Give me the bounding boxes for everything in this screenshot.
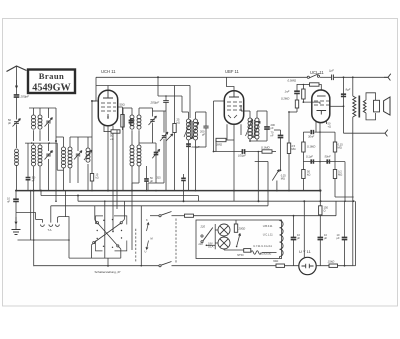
lamp shunt switch	[237, 233, 241, 246]
det cap 70nF	[278, 135, 284, 137]
antenna coil	[15, 149, 19, 153]
band arrows K	[147, 223, 150, 232]
svg-text:8µF: 8µF	[346, 88, 351, 92]
voltage selector switch	[201, 235, 203, 237]
UCL11 grids	[314, 101, 329, 105]
ext speaker jack bottom	[385, 130, 388, 137]
agc cap 100uF	[242, 149, 244, 154]
IFT2 arrows	[246, 119, 253, 136]
UBF11 diode plates	[228, 115, 237, 118]
avc line 2 dots	[183, 200, 185, 202]
resistor 015M	[333, 142, 336, 152]
svg-text:50Ω: 50Ω	[120, 103, 125, 107]
svg-text:pF: pF	[8, 121, 11, 125]
heater wavy resistor	[251, 251, 261, 255]
IFT1 cores	[190, 121, 192, 139]
svg-text:kΩ: kΩ	[96, 177, 99, 180]
svg-text:0,1A: 0,1A	[208, 245, 214, 249]
diode load resistor 2M	[216, 138, 226, 141]
UCL11 anode wire	[329, 105, 343, 107]
svg-text:50nF: 50nF	[325, 155, 331, 159]
capacitor 10nF	[13, 199, 19, 201]
nfb drop wire	[334, 179, 336, 198]
filter cap C1 10uF	[291, 237, 297, 239]
IFT1 wires	[188, 112, 190, 119]
svg-text:T.A: T.A	[48, 228, 52, 232]
band switch arms	[94, 223, 121, 246]
svg-text:0,1MΩ: 0,1MΩ	[261, 146, 270, 150]
UCH11 grids	[101, 103, 116, 111]
band contact br	[117, 245, 119, 247]
pot wiper arrow	[166, 134, 173, 141]
svg-text:110: 110	[198, 242, 203, 246]
IFT1 cap 200pF	[203, 126, 208, 128]
svg-text:220: 220	[200, 224, 206, 228]
capacitor 200pF	[14, 95, 20, 97]
padder cap 50uF	[146, 166, 148, 179]
svg-text:2MΩ: 2MΩ	[215, 143, 223, 147]
filter cap C3 10uF	[342, 237, 348, 239]
junction UBF11 bus	[155, 190, 157, 192]
osc transformer T3	[62, 147, 66, 151]
svg-text:1µF: 1µF	[329, 69, 334, 73]
rf trimmer T1	[46, 121, 50, 123]
coupling cap 1nF	[294, 91, 300, 93]
svg-text:0,2MΩ: 0,2MΩ	[281, 97, 290, 101]
IFT1 arrows	[184, 120, 191, 137]
cathode cap dark	[129, 120, 134, 122]
resistor 01M b	[302, 142, 305, 152]
UCH11 pin wires	[103, 126, 105, 132]
switch link	[175, 219, 177, 264]
grid leak 05M	[302, 89, 305, 99]
svg-text:4549GW: 4549GW	[32, 82, 71, 93]
svg-text:nF: nF	[32, 180, 35, 183]
junction rf bus	[33, 190, 35, 192]
wire left column b	[55, 141, 57, 201]
tube UBF11	[224, 91, 243, 125]
svg-text:M: M	[151, 237, 153, 241]
label box Braun 4549GW	[28, 70, 75, 94]
junction on top rail	[157, 76, 159, 78]
resistor NT50	[244, 249, 251, 253]
band switch bottom bus	[69, 257, 121, 259]
svg-text:U: U	[145, 250, 147, 254]
svg-text:MΩ: MΩ	[338, 173, 342, 177]
rectifier feed	[303, 201, 305, 257]
svg-text:0,1MΩ: 0,1MΩ	[307, 145, 316, 149]
top rail wire	[96, 76, 307, 78]
svg-text:kΩ: kΩ	[307, 173, 310, 177]
rf transformer T2 wires	[33, 143, 35, 145]
svg-text:UCH 11: UCH 11	[101, 69, 116, 74]
svg-text:µF: µF	[337, 236, 340, 240]
earth arrow	[15, 212, 17, 221]
screen rail wire	[96, 85, 190, 87]
cath line	[303, 131, 310, 133]
UCH11 grid cap wire	[107, 86, 109, 91]
antenna down arrow	[15, 80, 17, 88]
ground symbol	[12, 230, 21, 235]
svg-text:MΩ: MΩ	[338, 146, 342, 150]
IFT2 cap 200pF	[264, 127, 270, 129]
UBF11 pin wires	[226, 124, 228, 140]
ta terminal 2	[49, 225, 53, 227]
band feed wires	[104, 201, 106, 258]
hum resistor 150	[319, 206, 322, 215]
anode bus wire	[16, 190, 321, 192]
capacitor 200uF a	[163, 101, 169, 103]
avc line 1	[41, 195, 198, 197]
svg-text:U Y 11: U Y 11	[299, 249, 312, 254]
tube UCL11	[312, 90, 330, 123]
anode bypass cap 8uF	[341, 94, 346, 96]
mid trimmer	[162, 136, 166, 138]
svg-text:Schalterstellung „R“: Schalterstellung „R“	[95, 270, 121, 274]
nfb cap 50nF	[327, 159, 329, 163]
right rail down	[352, 133, 354, 266]
svg-text:200pF: 200pF	[20, 95, 30, 99]
svg-text:NT50: NT50	[237, 253, 244, 257]
junction T5 bus	[131, 190, 133, 192]
antenna symbol	[7, 66, 27, 72]
rf transformer T2 bottom	[32, 145, 36, 149]
grid stopper 05M	[310, 83, 320, 86]
band switch dots	[103, 220, 104, 221]
ta wire right	[65, 191, 67, 217]
dashed link band	[135, 229, 137, 263]
svg-text:MΩ: MΩ	[292, 147, 296, 151]
ta terminal 3	[56, 225, 60, 227]
volume pot 025M	[272, 170, 279, 181]
UCH11 bias resistor	[111, 130, 120, 133]
UCH11 anode	[103, 90, 113, 98]
svg-text:+Ω: +Ω	[328, 125, 332, 129]
T4 trimmer	[150, 120, 154, 122]
gram switch	[307, 76, 309, 78]
UBF11 anode	[229, 91, 239, 97]
rf trimmer T2	[46, 154, 50, 156]
svg-text:Ω: Ω	[324, 209, 326, 213]
speaker coil box	[374, 100, 380, 112]
svg-text:315: 315	[157, 177, 162, 180]
filter cap C2 10uF	[318, 237, 324, 239]
heater rail	[34, 265, 159, 267]
svg-text:nF: nF	[271, 134, 274, 138]
UBF11 left wire	[213, 101, 215, 152]
cap 200uF b	[186, 144, 191, 146]
cap 50nF left	[27, 143, 29, 177]
svg-text:U.C.L.11: U.C.L.11	[263, 232, 274, 236]
junction UCH11 left	[91, 100, 93, 102]
T4 wires	[131, 108, 133, 115]
dial lamp 2	[218, 237, 230, 249]
svg-text:1nF: 1nF	[285, 90, 290, 94]
ext speaker jack top	[384, 74, 391, 81]
lamp link wire	[214, 224, 216, 249]
lamp resistor 200	[234, 224, 237, 232]
UBF11 grids	[227, 102, 242, 110]
svg-text:U.B.F.11: U.B.F.11	[263, 224, 273, 228]
junction bus right	[319, 189, 321, 191]
svg-text:µF: µF	[297, 236, 300, 240]
rf transformer T1 top	[32, 115, 36, 119]
speaker feed wire	[343, 106, 345, 133]
cath cap 30nF	[311, 130, 313, 134]
osc transformer wires	[63, 137, 65, 147]
svg-text:pF: pF	[202, 133, 205, 137]
rf transformer T1 wires	[33, 108, 35, 115]
UCH11 cathode	[107, 114, 109, 119]
avc line 3	[51, 205, 268, 207]
wire y240	[18, 239, 70, 241]
svg-text:U.Y.11 U.C.H.11: U.Y.11 U.C.H.11	[253, 244, 272, 248]
top rail jack dot	[352, 76, 354, 78]
UBF11 top wire	[227, 77, 235, 90]
IFT2 wires	[249, 111, 251, 118]
band switch wafer outline	[96, 216, 127, 251]
secondary loop wires	[366, 93, 376, 120]
band contact tl	[96, 222, 98, 224]
speaker cone	[384, 97, 390, 115]
svg-text:15kΩ: 15kΩ	[328, 260, 336, 264]
resistor 15k	[329, 264, 338, 267]
power line left jog	[140, 206, 142, 266]
svg-text:60Ω: 60Ω	[273, 259, 278, 263]
svg-text:100µF: 100µF	[238, 154, 246, 158]
trimmer cap antenna	[14, 122, 19, 124]
series cap 1uF	[332, 75, 334, 81]
resistor 02M a	[295, 100, 298, 108]
mains switch pole1	[150, 215, 159, 217]
svg-text:0,1µF: 0,1µF	[306, 155, 313, 159]
wire bottom stubs	[39, 166, 41, 190]
ta line wire	[16, 211, 36, 213]
svg-text:0,5MΩ: 0,5MΩ	[288, 79, 297, 83]
wire mid stubs	[132, 182, 139, 184]
resistor 02M b	[333, 170, 336, 179]
svg-text:200µF: 200µF	[150, 101, 160, 105]
band contact tr	[120, 222, 122, 224]
T5 trimmer	[154, 152, 159, 154]
nfb cap 01uF	[311, 159, 313, 163]
svg-text:200Ω: 200Ω	[238, 227, 247, 231]
resistor 15k left	[90, 174, 93, 182]
osc trimmer	[76, 154, 80, 156]
output transformer primary	[353, 96, 356, 117]
svg-text:kΩ: kΩ	[177, 121, 180, 125]
ta terminal 1	[41, 225, 45, 227]
UCL11 anode	[317, 111, 327, 115]
rect UY11	[299, 257, 316, 274]
UCL11 cathode	[317, 95, 326, 97]
padder cap 2	[183, 174, 185, 178]
lamp bottom wire	[224, 249, 244, 251]
tube UCH11	[98, 90, 117, 126]
svg-text:30nF: 30nF	[308, 135, 314, 139]
IFT2 coils	[248, 118, 252, 122]
svg-text:K: K	[146, 218, 148, 222]
det resistor 01M	[262, 150, 272, 153]
left drop wires	[30, 191, 32, 240]
power box	[196, 220, 282, 259]
grid resistor 25M	[287, 143, 290, 154]
IFT1 coils	[187, 119, 191, 123]
svg-text:+Ω: +Ω	[110, 137, 114, 141]
band contact bl	[93, 242, 95, 244]
osc transformer T4	[130, 115, 134, 119]
UY11 plates	[302, 264, 314, 268]
output transformer secondary	[363, 100, 366, 113]
wire left column a	[55, 108, 57, 141]
svg-text:100/200Ω: 100/200Ω	[260, 253, 271, 256]
rf link wire	[25, 142, 57, 144]
svg-text:nF: nF	[7, 200, 10, 204]
resistor 50k	[302, 170, 305, 179]
IFT2 cores	[252, 120, 254, 138]
resistor 60	[276, 264, 285, 267]
mains switch pole2	[159, 265, 161, 267]
heater chain coil	[280, 221, 284, 257]
junction heater right	[344, 265, 346, 267]
osc transformer T5	[130, 145, 134, 149]
volume pot 25k	[173, 124, 176, 133]
dial lamp 1	[218, 224, 230, 236]
fuse	[185, 214, 194, 217]
UCH11 cathode resistor 50	[121, 115, 124, 128]
band arrows U	[146, 241, 149, 250]
junction IFT1 bus	[195, 190, 197, 192]
avc line 2	[78, 200, 354, 202]
nfb line	[303, 161, 345, 163]
svg-text:pF: pF	[271, 126, 274, 130]
svg-text:µF: µF	[324, 236, 327, 240]
output transformer core	[358, 96, 360, 118]
UCL11 pin wires	[315, 122, 317, 132]
svg-text:UBF 11: UBF 11	[225, 69, 240, 74]
svg-text:Braun: Braun	[39, 71, 64, 81]
svg-text:MΩ: MΩ	[281, 177, 285, 181]
T5 wires	[131, 143, 133, 145]
wire gram to grid	[303, 101, 320, 103]
osc coil padder	[86, 148, 90, 152]
agc junctions	[276, 190, 278, 192]
